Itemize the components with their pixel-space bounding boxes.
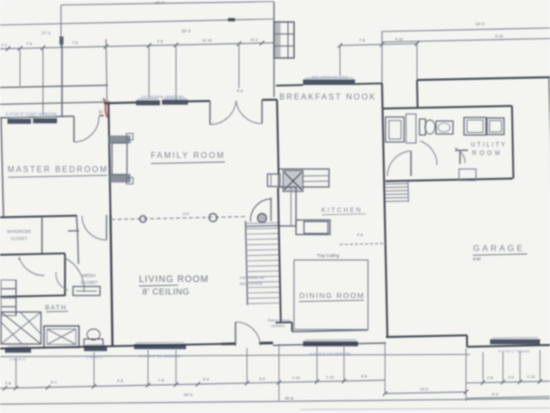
door utility <box>455 148 465 163</box>
sink half bath <box>436 121 453 134</box>
bath north wall <box>0 295 65 296</box>
window family room rear <box>136 100 160 105</box>
chimney box <box>274 22 294 58</box>
mud hall cabinet <box>386 117 405 142</box>
bath door arc <box>56 272 68 290</box>
family room fireplace <box>109 136 131 144</box>
garage right wall <box>549 78 550 141</box>
dining bay step <box>276 321 293 323</box>
family room rear wall <box>104 102 136 105</box>
porch line above master bedroom <box>0 85 108 87</box>
garage rear wall <box>417 77 550 80</box>
kitchen counter left band <box>279 187 297 226</box>
dryer <box>487 118 504 135</box>
stairs main rail <box>246 221 248 305</box>
stair landing edge <box>246 225 279 228</box>
kitchen counter top <box>279 169 330 187</box>
window bath 1 <box>5 348 31 353</box>
living room west wall <box>111 215 113 347</box>
basement stair door <box>410 151 412 176</box>
door master bedroom rear <box>73 117 75 143</box>
tub <box>44 326 79 348</box>
recessed front wall <box>386 335 467 337</box>
master bedroom south wall <box>0 216 77 218</box>
chimney wall <box>273 2 275 97</box>
closet door 2 <box>65 258 84 292</box>
closet partition vertical <box>41 216 43 254</box>
kitchen corner sink <box>283 171 303 192</box>
upper dimension line left <box>0 19 274 25</box>
family room west wall <box>109 103 111 215</box>
master bedroom west wall <box>1 118 4 218</box>
toilet half bath <box>420 119 426 135</box>
dimension line bottom left <box>0 383 247 388</box>
scan artifact bottom <box>300 408 550 410</box>
window bath 2 <box>84 346 107 351</box>
utility partition wall <box>455 149 468 151</box>
utility room south wall <box>386 179 513 182</box>
upper dimension line right <box>382 28 550 32</box>
family room east wall <box>277 100 279 174</box>
stairs main treads <box>246 222 279 225</box>
overall dimension line bottom <box>0 399 550 405</box>
hall cabinet 2 <box>406 114 416 143</box>
rear wall upper line master <box>0 102 104 104</box>
dimension line left with ticks <box>0 43 274 49</box>
window breakfast nook <box>303 79 355 85</box>
beam post 1 <box>140 216 146 222</box>
tray ceiling outline <box>294 260 368 330</box>
front door <box>235 322 237 346</box>
garage left wall upper <box>416 80 419 108</box>
extension lines bottom <box>15 358 17 387</box>
utility room north wall <box>383 106 512 109</box>
dimension line bottom middle <box>247 380 385 383</box>
closet door 1 <box>19 257 45 276</box>
kitchen peninsula <box>296 220 330 235</box>
hall wall vertical <box>64 254 66 297</box>
master bedroom rear wall <box>0 116 74 118</box>
french doors family room <box>209 101 211 125</box>
kitchen range <box>304 222 328 234</box>
beam post 2 <box>209 214 217 222</box>
dining south wall inner <box>292 330 368 332</box>
hall wall stub <box>77 216 78 231</box>
closet wall <box>0 253 65 254</box>
window living room <box>134 344 186 349</box>
breakfast nook rear wall <box>276 84 303 87</box>
dimension line second level <box>385 392 466 394</box>
dimension tick dark <box>60 37 64 45</box>
kitchen east wall <box>382 83 387 337</box>
window dining <box>303 341 358 346</box>
family room cabinet <box>268 174 281 187</box>
kitchen dining divider <box>340 244 386 245</box>
dimension bracket top <box>61 2 274 6</box>
front wall dining <box>273 343 386 345</box>
beam line living room <box>111 217 246 220</box>
door master to hall <box>106 215 108 240</box>
porch edge line <box>0 354 470 356</box>
front wall west <box>0 344 221 349</box>
stair newel circle <box>258 214 267 223</box>
garage front wall <box>467 345 550 347</box>
extension lines top-left <box>19 50 21 86</box>
toilet main bath <box>84 339 103 346</box>
family room door to kitchen <box>270 198 272 222</box>
second dimension line right <box>382 39 550 43</box>
window master bedroom rear <box>8 119 32 124</box>
basement stairs <box>386 183 409 186</box>
dining west wall <box>278 188 281 322</box>
utility step <box>459 169 476 181</box>
dimension line bottom right <box>466 381 550 383</box>
window garage <box>490 339 540 344</box>
dimension line right with ticks <box>340 44 417 46</box>
linen shelves <box>1 280 16 289</box>
utility room east wall <box>512 106 513 178</box>
red corner mark <box>103 99 107 118</box>
washer <box>464 118 486 136</box>
extension lines top-right <box>339 45 341 76</box>
door half bath <box>420 141 437 165</box>
front wall at door <box>221 342 236 345</box>
shower <box>1 312 41 344</box>
